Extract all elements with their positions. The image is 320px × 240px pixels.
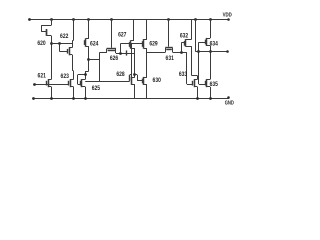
svg-text:623: 623 <box>61 73 69 80</box>
svg-text:627: 627 <box>118 32 126 39</box>
svg-text:621: 621 <box>38 72 46 79</box>
svg-text:628: 628 <box>116 71 124 78</box>
svg-text:629: 629 <box>149 40 157 47</box>
svg-text:622: 622 <box>60 33 68 40</box>
svg-text:633: 633 <box>179 71 187 78</box>
svg-text:631: 631 <box>166 55 174 62</box>
svg-text:GND: GND <box>225 101 234 107</box>
svg-text:624: 624 <box>90 41 98 48</box>
svg-text:635: 635 <box>210 81 218 88</box>
svg-text:634: 634 <box>210 40 218 47</box>
svg-text:632: 632 <box>180 33 188 40</box>
svg-text:VDD: VDD <box>223 13 232 19</box>
svg-text:625: 625 <box>92 85 100 92</box>
svg-text:626: 626 <box>110 55 118 62</box>
svg-text:630: 630 <box>153 77 161 84</box>
svg-text:620: 620 <box>37 40 45 47</box>
